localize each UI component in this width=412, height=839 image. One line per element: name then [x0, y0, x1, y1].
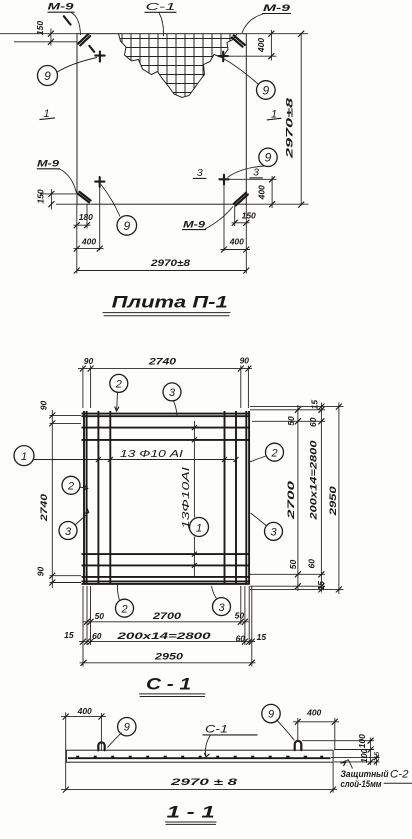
- dim 150 bottom-right: [232, 206, 257, 227]
- right chain 50|2700|50: [286, 405, 301, 591]
- callout 9 bottom-left: [101, 185, 137, 236]
- bottom chain 15|60|200x14=2800|60|15: [64, 630, 266, 645]
- section mark 3 left: [193, 167, 206, 179]
- svg-text:100: 100: [357, 734, 367, 748]
- svg-text:М-9: М-9: [263, 3, 291, 14]
- mesh C-1 in section (line with bar dots): [68, 756, 331, 759]
- lifting loop M-9 bottom-left: [77, 192, 90, 203]
- svg-text:9: 9: [123, 219, 130, 233]
- title C-1: [140, 675, 206, 697]
- cross mark bottom-right: [219, 175, 276, 251]
- svg-text:С-2: С-2: [390, 768, 409, 780]
- callout 3 left: [59, 508, 89, 540]
- lifting loop M-9 top-left: [78, 34, 90, 45]
- svg-text:150: 150: [35, 21, 45, 35]
- svg-text:15: 15: [64, 630, 74, 640]
- dim 2970±8 right: [285, 31, 305, 208]
- dim 400 top-right: [223, 30, 276, 61]
- reveal blob with mesh grid (C-1 shown in plate): [110, 30, 240, 100]
- svg-text:400: 400: [256, 185, 266, 200]
- right small dims of section: [302, 734, 381, 766]
- svg-text:2: 2: [270, 448, 277, 460]
- svg-text:60: 60: [92, 631, 102, 641]
- svg-text:15: 15: [257, 632, 267, 642]
- svg-text:400: 400: [256, 38, 266, 53]
- dim 400 bottom-left: [74, 237, 104, 252]
- cross mark top-right: [219, 52, 228, 62]
- right edge extension down: [332, 762, 334, 792]
- svg-text:400: 400: [229, 237, 244, 247]
- svg-text:М-9: М-9: [37, 158, 60, 169]
- svg-text:2700: 2700: [286, 480, 297, 521]
- svg-text:2: 2: [120, 604, 127, 616]
- svg-text:90: 90: [240, 356, 250, 366]
- title Plita P-1: [103, 293, 230, 316]
- dashed axis through top-left loop: [64, 16, 71, 24]
- mesh C-1: vertical bars (pos 2): [84, 411, 249, 585]
- svg-text:60: 60: [236, 633, 246, 643]
- mesh left dim chain 90|2740|90: [36, 401, 82, 588]
- label M-9 bottom-right: [182, 207, 233, 231]
- svg-text:3: 3: [218, 602, 225, 614]
- callout 2 left: [62, 476, 88, 494]
- label M-9 bottom-left: [37, 158, 77, 193]
- svg-text:13Ф10АI: 13Ф10АI: [180, 467, 192, 529]
- section mark 1 left: [40, 108, 56, 120]
- svg-text:слой-15мм: слой-15мм: [341, 779, 382, 790]
- plate P-1 outline: [77, 34, 246, 205]
- svg-text:3: 3: [169, 387, 176, 399]
- dim 150 bottom-left: [35, 189, 77, 210]
- lifting loop right in section: [295, 741, 302, 750]
- svg-text:2950: 2950: [328, 485, 339, 516]
- svg-text:9: 9: [44, 69, 51, 83]
- cross mark bottom-left: [95, 177, 104, 250]
- svg-text:15: 15: [374, 752, 381, 760]
- callout 1 left with span line 13 F10 AI: [14, 446, 239, 466]
- left edge extension down: [76, 204, 78, 273]
- svg-text:2740: 2740: [148, 356, 177, 367]
- svg-text:С-1: С-1: [146, 1, 176, 13]
- svg-text:2740: 2740: [39, 493, 50, 522]
- svg-text:13 Ф10 АI: 13 Ф10 АI: [120, 448, 183, 460]
- callout 9 top-left: [38, 58, 98, 86]
- label M-9 top-right: [242, 3, 291, 33]
- svg-text:М-9: М-9: [48, 2, 75, 13]
- callout 9 left section: [108, 718, 137, 748]
- svg-text:С-1: С-1: [205, 723, 228, 735]
- svg-text:2970±8: 2970±8: [150, 258, 191, 269]
- svg-text:Плита П-1: Плита П-1: [112, 293, 228, 312]
- svg-text:С - 1: С - 1: [146, 675, 191, 694]
- svg-text:1: 1: [196, 523, 202, 535]
- section mark 3 right: [250, 166, 263, 178]
- right edge extension down: [245, 204, 247, 273]
- svg-text:3: 3: [65, 526, 72, 538]
- callout 9 top-right: [224, 59, 276, 100]
- svg-text:2: 2: [115, 379, 122, 391]
- label C-1 section: [203, 723, 258, 757]
- svg-text:9: 9: [262, 83, 269, 97]
- svg-text:400: 400: [77, 706, 92, 716]
- mesh C-1: horizontal bars (pos 1/3): [82, 414, 250, 584]
- svg-text:60: 60: [306, 559, 316, 569]
- title 1-1: [165, 803, 216, 825]
- bottom chain 2950: [80, 652, 256, 666]
- right chain 2950: [328, 403, 342, 595]
- dim 150 top-left: [0, 21, 77, 46]
- svg-text:400: 400: [81, 237, 96, 247]
- callout 2 right: [250, 443, 284, 462]
- svg-text:60: 60: [308, 417, 318, 427]
- svg-text:М-9: М-9: [183, 219, 206, 230]
- bottom chain 50|2700|50: [83, 610, 249, 625]
- callout 3 right: [251, 513, 283, 540]
- vertical span line with callout 1 mid: [180, 421, 209, 578]
- mesh bottom extension lines: [83, 586, 252, 667]
- svg-text:90: 90: [39, 401, 49, 411]
- svg-text:15: 15: [309, 400, 319, 410]
- svg-text:180: 180: [79, 212, 93, 222]
- svg-text:9: 9: [265, 151, 272, 165]
- dim 2970±8 section: [61, 777, 337, 793]
- dim 400 left section: [61, 706, 106, 791]
- svg-text:1 - 1: 1 - 1: [167, 803, 215, 822]
- svg-text:150: 150: [242, 210, 256, 220]
- dim 400 bottom-right vertical: [256, 176, 275, 208]
- bottom edge extension right: [246, 203, 308, 205]
- svg-text:50: 50: [235, 610, 245, 620]
- svg-text:200х14=2800: 200х14=2800: [309, 440, 320, 521]
- dim 180 bottom-left: [74, 204, 94, 229]
- svg-text:3: 3: [253, 166, 259, 178]
- cross mark top-left: [95, 52, 104, 62]
- svg-text:2970 ± 8: 2970 ± 8: [169, 777, 238, 788]
- lifting loop M-9 top-right: [232, 35, 245, 46]
- svg-text:2: 2: [67, 481, 74, 493]
- dim 400 right section: [293, 708, 339, 750]
- label C-1 top: [145, 1, 177, 36]
- lifting loop M-9 bottom-right: [234, 193, 248, 206]
- callout 9 right section: [262, 704, 295, 740]
- svg-text:1: 1: [21, 451, 27, 463]
- svg-text:400: 400: [306, 708, 321, 718]
- callout 2 bottom: [116, 584, 134, 618]
- svg-text:90: 90: [84, 356, 94, 366]
- svg-text:2970±8: 2970±8: [285, 97, 296, 160]
- callout 3 bottom: [212, 586, 231, 616]
- svg-text:90: 90: [36, 567, 46, 577]
- svg-text:200х14=2800: 200х14=2800: [116, 631, 212, 642]
- callout 3 top: [163, 383, 181, 416]
- svg-text:3: 3: [270, 527, 277, 539]
- svg-text:50: 50: [286, 416, 296, 426]
- protective layer label: [340, 760, 412, 790]
- svg-text:50: 50: [95, 611, 105, 621]
- svg-text:9: 9: [124, 722, 130, 734]
- svg-text:15: 15: [316, 581, 326, 591]
- section mark 1 right: [267, 109, 282, 121]
- mesh right extension lines: [250, 407, 344, 590]
- svg-text:150: 150: [35, 189, 45, 203]
- callout 9 bottom-right: [228, 148, 278, 177]
- svg-text:9: 9: [268, 709, 274, 721]
- svg-text:2950: 2950: [154, 652, 184, 663]
- callout 2 top: [110, 374, 128, 411]
- right chain 15|60|200x14=2800|60|15: [306, 400, 326, 593]
- label M-9 top-left: [48, 2, 81, 35]
- top edge extension right: [246, 33, 308, 35]
- mesh top dim chain 90|2740|90: [78, 356, 252, 408]
- svg-text:2700: 2700: [152, 611, 182, 622]
- dim 400 bottom-right horizontal: [221, 237, 251, 253]
- dim 2970±8 bottom: [74, 258, 250, 274]
- svg-text:100: 100: [359, 748, 369, 762]
- section 1-1 slab outline: [66, 750, 333, 762]
- svg-text:3: 3: [197, 167, 203, 179]
- svg-text:50: 50: [288, 560, 298, 570]
- lifting loop left in section: [98, 742, 104, 750]
